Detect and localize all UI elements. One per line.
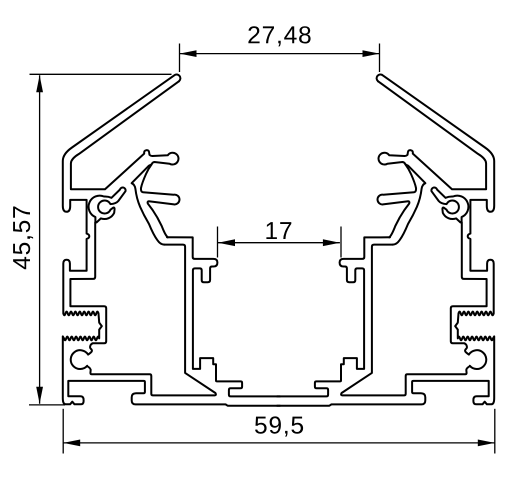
extension line right [494, 409, 496, 454]
label 27,48 [248, 26, 310, 46]
arrow right [478, 440, 495, 447]
arrow left [180, 50, 197, 57]
arrow right [363, 50, 380, 57]
arrow left [218, 239, 235, 246]
arrow left [63, 440, 80, 447]
arrow right [323, 239, 340, 246]
arrow bottom [36, 387, 43, 404]
extension line right [379, 44, 381, 73]
extension line left [179, 44, 181, 73]
extension line right [340, 227, 342, 258]
label 45,57 [13, 207, 33, 270]
dimension line [39, 75, 41, 404]
arrow top [36, 75, 43, 92]
dimension 27,48 top [180, 26, 380, 72]
dimension line [63, 442, 495, 444]
extension line left [217, 227, 219, 258]
dimension line [218, 242, 340, 244]
dimension 17 middle [218, 222, 342, 257]
extension line left [62, 409, 64, 454]
dimension 59,5 bottom [63, 409, 495, 454]
label 59,5 [255, 416, 303, 436]
dimension line [180, 53, 380, 55]
extension line bottom [29, 404, 65, 406]
profile left half [63, 75, 280, 406]
extension line top [30, 73, 172, 75]
dimension 45,57 left [13, 74, 171, 405]
profile right half (mirrored) [277, 75, 494, 406]
label 17 [266, 222, 291, 239]
